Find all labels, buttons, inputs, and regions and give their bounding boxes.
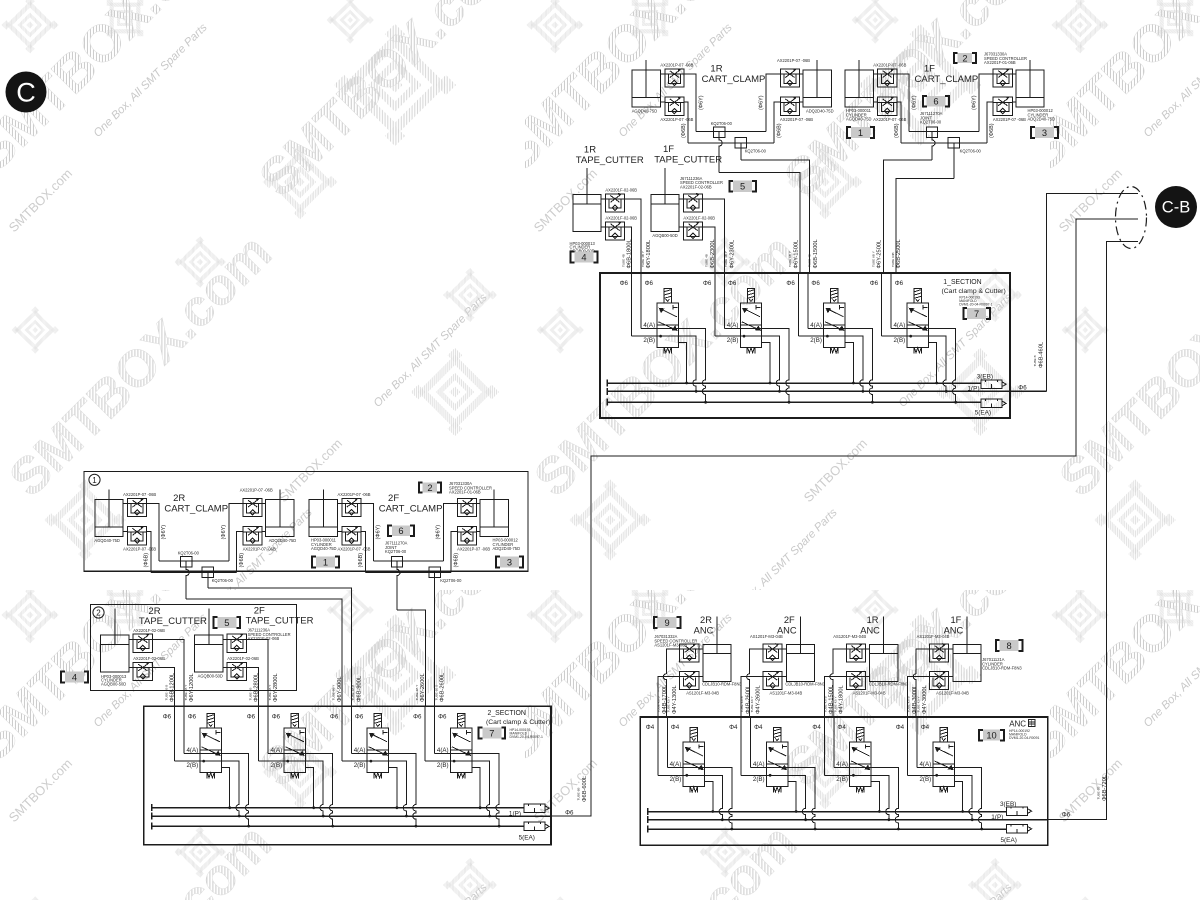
svg-text:6: 6: [933, 97, 938, 107]
wire stub: [129, 667, 133, 669]
svg-text:(Cart clamp & Cutter): (Cart clamp & Cutter): [942, 288, 1006, 295]
speed controller 1F ANC lower: [930, 672, 949, 690]
wire port 2(B) line to 1(P) bus: [425, 761, 490, 816]
svg-text:Φ6B-900L: Φ6B-900L: [356, 676, 362, 702]
svg-text:2(B): 2(B): [186, 762, 198, 769]
svg-text:TUBE 4B: TUBE 4B: [808, 254, 812, 267]
svg-text:TUBE 6B Y: TUBE 6B Y: [415, 685, 419, 701]
wire 5(EA) bus 2_SECTION: [152, 823, 524, 830]
svg-text:(Φ6Y): (Φ6Y): [221, 525, 227, 540]
label tube Φ4B-1700L: [657, 685, 668, 714]
speed controller 2F cart clamp lower-right AX2201P-07-06B: [457, 527, 476, 545]
svg-text:(Φ6B): (Φ6B): [776, 123, 782, 138]
wire stub: [679, 226, 683, 228]
svg-text:CDLJB10-RDM-F8N3: CDLJB10-RDM-F8N3: [869, 681, 909, 686]
wire 4(A) feed x=724: [724, 273, 726, 329]
wire 4(A) feed x=641: [640, 273, 642, 329]
svg-text:(Φ6Y): (Φ6Y): [161, 525, 167, 540]
speed controller 1F ANC upper: [930, 644, 949, 662]
silencer 3(EB) 1_SECTION: [981, 380, 1006, 388]
svg-text:TUBE 42i B: TUBE 42i B: [907, 696, 911, 712]
speed controller 1R cart clamp upper-right AX2201P-07-06B: [780, 69, 799, 87]
speed controller 1F tape cutter lower AX2201F-02-06B: [683, 222, 702, 240]
wire 3(EB) bus ANC: [648, 808, 1007, 815]
svg-text:TUBE 42i Y: TUBE 42i Y: [833, 696, 837, 712]
svg-text:TUBE 42i Y: TUBE 42i Y: [667, 696, 671, 712]
label tube Φ6Y-1500L: [788, 240, 799, 269]
svg-text:CART_CLAMP: CART_CLAMP: [702, 74, 766, 85]
wire stub: [873, 73, 877, 75]
svg-text:CDLJB10-RDM-F8N3: CDLJB10-RDM-F8N3: [702, 681, 742, 686]
tag 4: [571, 251, 598, 262]
speed controller 1R cart clamp upper-left AX2201P-07-06B: [665, 69, 684, 87]
svg-text:AS1201F-M3-04B: AS1201F-M3-04B: [917, 634, 950, 639]
wire (Φ6Y) drop left 2R cart clamp: [147, 504, 159, 562]
svg-text:2F: 2F: [388, 493, 399, 504]
svg-text:AX2201P-07 -06B: AX2201P-07 -06B: [338, 492, 371, 497]
wire port 2(B) line to 1(P) bus: [658, 775, 723, 819]
cylinder 1R cart clamp left AGQD40-75D: [632, 60, 660, 107]
label (Φ6Y): [221, 525, 227, 540]
wire C-B line2 to 2_SECTION 1(P): [551, 219, 1138, 816]
label tube Φ6B-2600L: [434, 673, 445, 702]
svg-text:AGQB00-50D: AGQB00-50D: [652, 233, 677, 238]
svg-text:Φ6: Φ6: [355, 713, 364, 720]
label (Φ6Y): [759, 95, 765, 110]
wire (Φ6Y) drop right 2R cart clamp: [229, 504, 243, 562]
label tube Φ6B-2500L: [891, 239, 902, 268]
wire 1(P) bus 2_SECTION: [152, 813, 551, 820]
svg-text:(Φ6Y): (Φ6Y): [911, 95, 917, 110]
svg-text:TUBE 4B: TUBE 4B: [248, 688, 252, 701]
svg-text:TUBE 6B B: TUBE 6B B: [351, 685, 355, 701]
wire stub: [660, 101, 664, 103]
svg-text:CART_CLAMP: CART_CLAMP: [164, 504, 228, 515]
svg-text:5(EA): 5(EA): [519, 834, 535, 841]
svg-text:AGQD40-75D: AGQD40-75D: [94, 538, 120, 543]
wire (Y) 1R tape cutter HP03-000013 to manifold: [625, 199, 642, 273]
svg-text:AS1201F-M3-04B: AS1201F-M3-04B: [770, 691, 803, 696]
svg-text:DVM1-20-04-R0097-1: DVM1-20-04-R0097-1: [959, 303, 992, 307]
wire port 2(B) line to 1(P) bus: [342, 761, 407, 816]
svg-text:C: C: [16, 78, 36, 108]
svg-text:8: 8: [1007, 641, 1012, 651]
svg-text:Φ6B-460L: Φ6B-460L: [1039, 342, 1045, 368]
wire stub: [477, 530, 481, 532]
svg-text:2: 2: [427, 483, 432, 493]
wire valve to 3(EB) bus: [871, 782, 879, 812]
svg-text:Φ6: Φ6: [272, 713, 281, 720]
wire (Φ6B) drop left 1F cart clamp: [897, 102, 901, 143]
wire tee B 2R leg: [207, 578, 209, 588]
svg-text:6: 6: [398, 526, 403, 536]
speed controller 2R cart clamp upper-left AX2201P-07-06B: [128, 498, 147, 516]
svg-text:KQ2T06-00: KQ2T06-00: [212, 578, 234, 583]
wire stub: [949, 676, 953, 678]
svg-text:AS1201F-M3-04B: AS1201F-M3-04B: [936, 691, 969, 696]
label (Φ6Y): [911, 95, 917, 110]
svg-text:2(B): 2(B): [437, 762, 449, 769]
wire valve to 3(EB) bus: [389, 767, 397, 807]
svg-text:2R: 2R: [173, 493, 185, 504]
svg-text:(Φ6B): (Φ6B): [144, 553, 150, 568]
svg-text:(Φ6Y): (Φ6Y): [759, 95, 765, 110]
wire 4(A) feed x=891: [890, 273, 892, 329]
svg-text:5(EA): 5(EA): [975, 410, 991, 417]
svg-text:Φ6Y-2300L: Φ6Y-2300L: [730, 240, 736, 269]
label tube Φ6Y-2500L: [871, 240, 882, 269]
wire (Φ6Y) drop left 1R cart clamp: [684, 74, 696, 132]
manifold 2_SECTION (Cart clamp & Cutter) box: [144, 706, 551, 844]
svg-text:Φ6B-720L: Φ6B-720L: [1102, 775, 1108, 801]
tag 10: [979, 730, 1004, 741]
wire (B) 2F tape cutter to manifold: [246, 668, 258, 707]
svg-text:Φ6Y-2800L: Φ6Y-2800L: [273, 673, 279, 702]
wire Y bus 2F cart clamp: [373, 560, 443, 562]
svg-text:(Φ6B): (Φ6B): [239, 553, 245, 568]
svg-text:2R: 2R: [700, 615, 712, 625]
svg-text:AX2201F-02-06B: AX2201F-02-06B: [133, 628, 165, 633]
manifold valve cx=378: [367, 713, 388, 778]
wire stub: [1012, 73, 1016, 75]
svg-text:1F: 1F: [924, 64, 935, 75]
svg-text:2(B): 2(B): [893, 337, 905, 344]
wire port 2(B) line to 1(P) bus: [824, 775, 889, 819]
wire port 4(A) line to 5(EA) bus: [751, 768, 816, 829]
wire 1(P) bus ANC: [648, 816, 1048, 823]
svg-text:4(A): 4(A): [186, 747, 198, 754]
silencer 5(EA) 1_SECTION: [981, 399, 1006, 407]
wire valve to 3(EB) bus: [845, 342, 853, 383]
svg-text:CART_CLAMP: CART_CLAMP: [379, 504, 443, 515]
svg-text:AX2201F-02-06B: AX2201F-02-06B: [227, 656, 259, 661]
cylinder 1R cart clamp right ADQ2D40-75D: [803, 60, 831, 107]
wire (B) 1R ANC drop: [824, 677, 846, 717]
joint KQ2T06-00 tee B 1R: [735, 138, 746, 149]
wire stub: [679, 198, 683, 200]
svg-text:2_SECTION: 2_SECTION: [488, 710, 526, 717]
wire 2(B) feed x=342: [341, 706, 343, 761]
wire 2(B) feed x=908: [907, 717, 909, 775]
wire valve to 3(EB) bus: [788, 782, 796, 812]
svg-text:4: 4: [581, 252, 586, 262]
manifold valve cx=211: [200, 713, 221, 778]
wire B 1F to manifold col4: [896, 179, 954, 273]
wire B 2R to 2_SECTION col3: [208, 588, 352, 706]
svg-text:Φ6: Φ6: [895, 280, 904, 287]
svg-text:Φ4: Φ4: [921, 724, 930, 731]
svg-text:AX2201F-02-06B: AX2201F-02-06B: [605, 187, 637, 192]
wire valve to 3(EB) bus: [221, 767, 229, 807]
svg-text:4(A): 4(A): [919, 761, 931, 768]
wire 4(A) feed x=435: [434, 706, 436, 753]
svg-text:Φ6: Φ6: [247, 713, 256, 720]
wire 2(B) feed x=715: [714, 273, 716, 336]
wire stub: [129, 638, 133, 640]
wire stub: [262, 530, 266, 532]
speed controller 2F cart clamp upper-right AX2201P-07-06B: [457, 498, 476, 516]
speed controller 2R cart clamp lower-right AX2201P-07-06B: [243, 527, 262, 545]
speed controller 1F cart clamp upper-right AX2201P-07-06B: [993, 69, 1012, 87]
svg-text:Φ6B-1200L: Φ6B-1200L: [170, 673, 176, 702]
svg-text:TUBE 6B Y: TUBE 6B Y: [332, 685, 336, 701]
svg-text:5(EA): 5(EA): [1001, 837, 1017, 844]
wire valve to 3(EB) bus: [705, 782, 713, 812]
speed controller 2R cart clamp upper-right AX2201P-07-06B: [243, 498, 262, 516]
wire port 2(B) line to 1(P) bus: [715, 336, 780, 391]
wire stub: [799, 73, 803, 75]
wire 5(EA) bus 1_SECTION: [607, 399, 981, 406]
wire tee B 1R leg: [740, 148, 742, 160]
svg-text:CDLJB10-RDM-F8N3: CDLJB10-RDM-F8N3: [982, 666, 1022, 671]
wire (Φ6Y) drop right 1R cart clamp: [766, 74, 780, 132]
wire 4(A) feed x=808: [807, 273, 809, 329]
wire Y 1R to manifold col3: [719, 173, 800, 274]
label (Φ6B): [144, 553, 150, 568]
svg-text:4(A): 4(A): [354, 747, 366, 754]
label tube Φ6Y-2600L: [415, 673, 426, 702]
svg-text:AGQD40-75D: AGQD40-75D: [632, 109, 658, 114]
svg-text:TAPE_CUTTER: TAPE_CUTTER: [654, 155, 722, 166]
wire tee B 2F leg straight down to 2_SECTION col4: [434, 578, 436, 706]
joint KQ2T06-00 tee Y 1F: [926, 127, 937, 138]
wire stub: [338, 530, 342, 532]
wire 4(A) feed x=268: [267, 706, 269, 753]
wire 3(EB) bus 2_SECTION: [152, 804, 524, 811]
wire 4(A) feed x=917: [916, 717, 918, 768]
tag 3: [1031, 127, 1058, 138]
wire stub: [865, 648, 869, 650]
label (Φ6B): [894, 123, 900, 138]
svg-text:Φ4: Φ4: [646, 724, 655, 731]
svg-text:1(P): 1(P): [968, 386, 980, 393]
svg-text:1F: 1F: [950, 615, 961, 625]
label tube Φ4Y-1300L: [667, 685, 678, 714]
tag 1 (box1): [312, 556, 339, 567]
wire (B) 2F ANC drop: [741, 677, 763, 717]
svg-text:ADQ2D40-75D: ADQ2D40-75D: [1028, 117, 1056, 122]
svg-text:1: 1: [858, 128, 863, 138]
svg-text:Φ6: Φ6: [786, 280, 795, 287]
svg-text:AX2201P-07 -06B: AX2201P-07 -06B: [993, 117, 1026, 122]
svg-text:2(B): 2(B): [270, 762, 282, 769]
svg-text:KQ2T06-00: KQ2T06-00: [178, 551, 200, 556]
svg-text:AX2201F-02-06B: AX2201F-02-06B: [248, 636, 280, 641]
svg-text:Φ6: Φ6: [645, 280, 654, 287]
wire (Y) 1R ANC drop: [830, 649, 846, 717]
svg-text:CDLJB10-RDM-F8N3: CDLJB10-RDM-F8N3: [785, 681, 825, 686]
svg-text:TUBE 4B Y: TUBE 4B Y: [641, 251, 645, 267]
speed controller 1R tape cutter HP03-000013 upper AX2201F-02-06B: [605, 194, 624, 212]
cylinder 1F cart clamp left: [845, 60, 873, 107]
svg-text:AGQB00-50D: AGQB00-50D: [101, 681, 126, 686]
wire valve to 3(EB) bus: [954, 782, 962, 812]
tag 2 (box1): [419, 482, 441, 493]
wire stub: [873, 101, 877, 103]
speed controller 2R cart clamp lower-left AX2201P-07-06B: [128, 527, 147, 545]
wire stub: [949, 648, 953, 650]
svg-text:AX2201F-02-06B: AX2201F-02-06B: [680, 184, 712, 189]
svg-text:5: 5: [224, 618, 229, 628]
svg-text:Φ6Y-1200L: Φ6Y-1200L: [189, 673, 195, 702]
wire valve to 3(EB) bus: [678, 342, 686, 383]
svg-text:3: 3: [507, 557, 512, 567]
svg-text:Φ6B-2800L: Φ6B-2800L: [254, 673, 260, 702]
tag 6: [923, 96, 949, 107]
wire 2(B) feed x=824: [823, 717, 825, 775]
wire C-B line1 to 1_SECTION 1(P): [1047, 193, 1138, 391]
manifold valve cx=918: [907, 288, 928, 353]
wire (Y) 2R tape cutter to manifold: [152, 639, 184, 706]
svg-text:ANC: ANC: [694, 626, 714, 636]
wire stub: [782, 648, 786, 650]
cylinder 1F tape cutter: [651, 168, 679, 231]
label tube Φ6B-1800L: [621, 239, 632, 268]
label tube Φ6B-720L: [1097, 775, 1108, 801]
svg-text:Φ6: Φ6: [620, 280, 629, 287]
label (Φ6B): [989, 123, 995, 138]
wire (Φ6B) drop left 2F cart clamp: [361, 531, 365, 572]
wire Y 1F to manifold col4: [884, 160, 933, 273]
svg-text:Φ6B-1500L: Φ6B-1500L: [813, 239, 819, 268]
svg-text:2(B): 2(B): [836, 776, 848, 783]
svg-text:AGQD40-75D: AGQD40-75D: [846, 117, 872, 122]
cylinder 2F ANC CDLJB10-RDM-F8N3: [786, 617, 814, 682]
wire stub: [123, 503, 127, 505]
label (Φ6B): [239, 553, 245, 568]
wire tee Y 2R leg (hop over B bus): [186, 567, 189, 599]
speed controller 2R tape cutter lower AX2201F-02-06B: [133, 662, 152, 680]
svg-text:(Φ6B): (Φ6B): [453, 553, 459, 568]
label circled 2: [93, 607, 104, 618]
tag 3 (box1): [496, 556, 523, 567]
svg-text:TUBE 42i B: TUBE 42i B: [823, 696, 827, 712]
svg-text:AS1201F-M3-04B: AS1201F-M3-04B: [833, 634, 866, 639]
speed controller 1F cart clamp lower-left AX2201P-07-06B: [878, 97, 897, 115]
speed controller 1R ANC lower: [846, 672, 865, 690]
wire port 2(B) line to 1(P) bus: [632, 336, 697, 391]
speed controller 1R cart clamp lower-right AX2201P-07-06B: [780, 97, 799, 115]
svg-text:TUBE 42i Y: TUBE 42i Y: [750, 696, 754, 712]
wire valve to 3(EB) bus: [928, 342, 936, 383]
svg-text:4(A): 4(A): [270, 747, 282, 754]
wire B bus 1R cart clamp: [688, 142, 774, 144]
svg-text:AX2201P-07 -06B: AX2201P-07 -06B: [457, 546, 490, 551]
wire B bus 2F cart clamp: [365, 572, 451, 574]
svg-text:AX2201F-02-06B: AX2201F-02-06B: [605, 216, 637, 221]
wire tee Y 1F leg (hop over B bus): [932, 138, 935, 161]
speed controller 2F cart clamp lower-left AX2201P-07-06B: [342, 527, 361, 545]
svg-text:AX2201P-07 -06B: AX2201P-07 -06B: [123, 492, 156, 497]
svg-text:(Φ6B): (Φ6B): [358, 553, 364, 568]
svg-text:(Φ6B): (Φ6B): [894, 123, 900, 138]
svg-text:Φ6B-600L: Φ6B-600L: [582, 776, 588, 802]
svg-text:(Cart clamp & Cutter): (Cart clamp & Cutter): [486, 719, 550, 726]
manifold ANC box: [640, 717, 1047, 845]
wire port 2(B) line to 1(P) bus: [882, 336, 947, 391]
speed controller 2R tape cutter upper AX2201F-02-06B: [133, 634, 152, 652]
label (Φ6Y): [161, 525, 167, 540]
connector ellipse (dashed): [1116, 187, 1147, 249]
svg-text:1R: 1R: [710, 64, 722, 75]
svg-text:TUBE 6B Y: TUBE 6B Y: [788, 251, 792, 267]
label ANC用: [1009, 720, 1035, 729]
tag 9: [654, 617, 681, 628]
speed controller 1R ANC upper: [846, 644, 865, 662]
svg-text:Φ6Y-1500L: Φ6Y-1500L: [793, 240, 799, 269]
wire 2(B) feed x=882: [881, 273, 883, 336]
cylinder 2F tape cutter: [195, 609, 223, 672]
joint KQ2T06-00 tee B 2F: [429, 567, 440, 578]
svg-text:Φ6Y-900L: Φ6Y-900L: [337, 676, 343, 702]
label (Φ6B): [453, 553, 459, 568]
svg-text:TUBE 6B: TUBE 6B: [1097, 787, 1101, 800]
manifold valve cx=777: [766, 728, 787, 793]
svg-text:Φ6: Φ6: [1062, 812, 1071, 819]
manifold valve cx=668: [657, 288, 678, 353]
speed controller 2R ANC lower: [680, 672, 699, 690]
speed controller 1F cart clamp lower-right AX2201P-07-06B: [993, 97, 1012, 115]
wire 2(B) feed x=798: [797, 273, 799, 336]
wire (Y) 1F tape cutter to manifold: [703, 199, 725, 273]
svg-text:AGQB00-50D: AGQB00-50D: [198, 674, 223, 679]
wire 2(B) feed x=259: [258, 706, 260, 761]
tag 8: [996, 640, 1023, 651]
svg-text:1R: 1R: [867, 615, 879, 625]
speed controller 2R ANC upper: [680, 644, 699, 662]
svg-text:KQ2T06-00: KQ2T06-00: [440, 578, 462, 583]
svg-text:1(P): 1(P): [991, 814, 1003, 821]
wire port 4(A) line to 5(EA) bus: [268, 754, 333, 827]
svg-text:2(B): 2(B): [753, 776, 765, 783]
wire (Φ6Y) drop left 2F cart clamp: [361, 504, 373, 562]
speed controller 2F tape cutter lower AX2201F-02-06B: [227, 662, 246, 680]
joint KQ2T06-00 tee Y 2F: [391, 557, 402, 568]
svg-text:Φ6B-2500L: Φ6B-2500L: [896, 239, 902, 268]
svg-text:3(EB): 3(EB): [977, 374, 993, 381]
svg-text:3(EB): 3(EB): [1000, 801, 1016, 808]
svg-text:(Φ6Y): (Φ6Y): [698, 95, 704, 110]
svg-text:(Φ6B): (Φ6B): [989, 123, 995, 138]
svg-text:AGQD40-75D: AGQD40-75D: [311, 546, 337, 551]
wire 2(B) feed x=425: [424, 706, 426, 761]
tag 1: [847, 127, 874, 138]
manifold valve cx=860: [850, 728, 871, 793]
label tube Φ6Y-900L: [332, 676, 343, 702]
svg-text:AS1201F-M3-04B: AS1201F-M3-04B: [853, 691, 886, 696]
label (Φ6Y): [376, 525, 382, 540]
speed controller 2F cart clamp upper-left AX2201P-07-06B: [342, 498, 361, 516]
joint KQ2T06-00 tee B 2R: [202, 567, 213, 578]
label tube Φ6B-1500L: [808, 239, 819, 268]
svg-text:1: 1: [92, 476, 97, 485]
speed controller 1F tape cutter upper AX2201F-02-06B: [683, 194, 702, 212]
svg-text:Φ6: Φ6: [870, 280, 879, 287]
label (Φ6Y): [436, 525, 442, 540]
wire (Y) 2F ANC drop: [747, 649, 763, 717]
svg-text:TUBE 4B: TUBE 4B: [705, 254, 709, 267]
svg-text:KQ2T06-00: KQ2T06-00: [920, 120, 942, 125]
svg-text:DVM1-20-04-R0097-1: DVM1-20-04-R0097-1: [510, 735, 543, 739]
svg-text:4(A): 4(A): [810, 322, 822, 329]
silencer 3(EB) 2_SECTION: [524, 804, 549, 812]
tag 6 (box1): [388, 525, 414, 536]
wire Y 2R to 2_SECTION col3: [186, 599, 342, 706]
svg-text:4(A): 4(A): [727, 322, 739, 329]
speed controller 1R tape cutter HP03-000013 lower AX2201F-02-06B: [605, 222, 624, 240]
wire tee Y 1R leg (hop over B bus): [719, 138, 722, 173]
svg-text:AS1201F-M3-04B: AS1201F-M3-04B: [686, 691, 719, 696]
